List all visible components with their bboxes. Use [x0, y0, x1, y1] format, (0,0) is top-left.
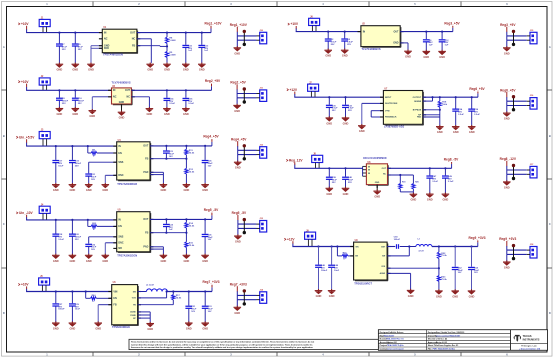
- resistor R20: [412, 175, 419, 192]
- wire J18 to ground: [506, 254, 508, 261]
- svg-text:GND: GND: [504, 185, 510, 189]
- svg-text:100k: 100k: [442, 104, 448, 106]
- wire C6 output rail: [400, 31, 453, 33]
- svg-text:25V: 25V: [332, 110, 336, 112]
- wire J10 to ground: [236, 40, 238, 47]
- svg-text:16V: 16V: [208, 165, 212, 167]
- ground C21: [85, 183, 93, 192]
- svg-text:Reg4_+5V: Reg4_+5V: [203, 135, 219, 139]
- wire U3 GND pin: [121, 104, 123, 111]
- net label Reg6_+5V: [469, 87, 485, 97]
- svg-text:+12V: +12V: [287, 237, 295, 241]
- wire U8 pin2: [388, 174, 414, 176]
- svg-text:TIDA-010057 Rev: E1: TIDA-010057 Rev: E1: [386, 338, 403, 341]
- ground R15: [183, 254, 191, 263]
- net label Reg3_+5V: [444, 21, 460, 31]
- net label Reg5_-5V output: [232, 211, 247, 224]
- connector J5: [39, 276, 50, 291]
- capacitor C14: [164, 90, 176, 108]
- svg-text:GND: GND: [183, 112, 189, 116]
- svg-text:OUTPUT: OUTPUT: [413, 97, 422, 99]
- wire J14 pins: [237, 295, 256, 299]
- wire U4 DNC pin to ground: [105, 175, 116, 183]
- svg-text:75.0k: 75.0k: [441, 279, 447, 281]
- net label Uin +5.5V input C3: [16, 135, 35, 146]
- capacitor C6: [423, 32, 433, 51]
- wire J11 to ground: [236, 98, 238, 105]
- svg-text:L3: L3: [418, 238, 420, 240]
- svg-text:1uF: 1uF: [169, 229, 174, 231]
- svg-text:GND: GND: [374, 195, 380, 199]
- ground C47: [426, 193, 434, 202]
- ground C27: [52, 321, 60, 330]
- wire C9 input rail: [292, 245, 353, 247]
- capacitor C27: [52, 292, 65, 323]
- capacitor C17: [52, 146, 64, 183]
- wire C5 output rail: [167, 290, 212, 292]
- svg-text:OUT: OUT: [143, 145, 149, 148]
- wire J14 to ground: [236, 300, 238, 307]
- ground U5 DNC: [102, 254, 110, 263]
- svg-text:Texas Instruments and/or its l: Texas Instruments and/or its licensors d…: [131, 340, 314, 343]
- ground U3 left: [89, 109, 97, 118]
- connector J18: [527, 244, 537, 258]
- net label Reg2_+5V: [205, 79, 221, 90]
- wire U1 GND+PAD pins to ground: [91, 46, 102, 63]
- capacitor C34: [452, 97, 464, 125]
- svg-text:16V: 16V: [474, 272, 478, 274]
- svg-text:3.3uF: 3.3uF: [432, 181, 438, 183]
- net label +12V input C7: [287, 88, 298, 97]
- wire C5 input rail: [26, 290, 112, 292]
- wire J10 pins: [237, 36, 256, 40]
- capacitor C15: [183, 90, 195, 108]
- connector J7: [308, 82, 319, 97]
- wire C3 input rail: [26, 145, 117, 147]
- svg-text:1.00M: 1.00M: [169, 55, 175, 57]
- ground C6: [423, 50, 431, 59]
- svg-text:25V: 25V: [62, 49, 66, 51]
- svg-text:FB: FB: [113, 304, 116, 307]
- capacitor C46: [315, 247, 328, 290]
- svg-text:Design 4.0.02: Design 4.0.02: [436, 341, 447, 344]
- svg-text:GND: GND: [119, 116, 125, 120]
- svg-text:25V: 25V: [332, 182, 336, 184]
- ground C19: [69, 183, 77, 192]
- svg-text:GND: GND: [443, 198, 449, 202]
- svg-text:50V: 50V: [91, 249, 95, 251]
- wire C6 input rail: [296, 31, 361, 33]
- svg-text:Reg7_+3V3: Reg7_+3V3: [202, 280, 219, 284]
- svg-text:GND: GND: [436, 294, 442, 298]
- ground U6 FB: [94, 321, 102, 330]
- svg-text:GND: GND: [343, 121, 349, 125]
- svg-text:FEEDBACK: FEEDBACK: [385, 116, 397, 119]
- svg-text:GND: GND: [89, 114, 95, 118]
- wire U6 FB right: [138, 304, 174, 306]
- ground U1 NC: [146, 63, 154, 72]
- svg-text:TEXAS: TEXAS: [523, 334, 532, 338]
- svg-text:OUT: OUT: [125, 89, 131, 92]
- svg-text:TLV70433DBVS: TLV70433DBVS: [362, 47, 381, 51]
- svg-text:GND: GND: [439, 55, 445, 59]
- ground J13: [234, 234, 242, 243]
- svg-text:Reg2_+5V: Reg2_+5V: [205, 79, 221, 83]
- ground C13: [198, 63, 206, 72]
- wire C1 input rail: [26, 31, 102, 33]
- capacitor C52: [452, 247, 464, 291]
- op-amp U2 TLV70433: [358, 24, 404, 51]
- svg-text:IN: IN: [363, 30, 366, 33]
- capacitor C2: [325, 32, 337, 50]
- svg-text:INPUT: INPUT: [385, 97, 392, 99]
- capacitor C21: [85, 173, 97, 183]
- ground C22: [85, 254, 93, 263]
- net label +10V input C5: [18, 283, 29, 292]
- svg-text:GND: GND: [164, 68, 170, 72]
- wire U7 np pad pins to ground: [423, 110, 440, 126]
- ground C40: [342, 187, 350, 196]
- svg-text:Firas Obeidat Test Date: 3/2: Firas Obeidat Test Date: 3/20/2019: [436, 331, 464, 334]
- wire J17 pins: [507, 170, 527, 174]
- svg-text:GND: GND: [504, 117, 510, 121]
- svg-text:16V: 16V: [208, 239, 212, 241]
- wire C7 output rail: [423, 96, 478, 98]
- svg-text:1.00M: 1.00M: [169, 40, 175, 42]
- disclaimer text box: [129, 339, 379, 349]
- ground J11: [233, 104, 241, 113]
- ground U9: [407, 289, 415, 298]
- ground C20: [69, 254, 77, 263]
- svg-text:+10V: +10V: [21, 80, 29, 84]
- connector J3: [39, 130, 50, 146]
- ground R19 R20: [410, 193, 418, 202]
- svg-text:SW: SW: [133, 291, 136, 293]
- capacitor C9: [72, 33, 84, 63]
- svg-text:VIN: VIN: [113, 290, 117, 293]
- svg-text:FB: FB: [145, 232, 148, 235]
- wire U8 GND pin: [376, 185, 378, 191]
- capacitor C33: [202, 292, 214, 323]
- connector J6: [309, 17, 320, 32]
- svg-text:TI Designs: Lam: TI Designs: Lam: [521, 345, 537, 347]
- shunt jumper J16: [512, 95, 515, 111]
- ground U7 right: [436, 125, 444, 134]
- svg-text:25V: 25V: [348, 182, 352, 184]
- svg-text:+10V: +10V: [21, 283, 29, 287]
- capacitor C10: [72, 90, 85, 107]
- net label Reg7_+3V3 output: [230, 283, 247, 296]
- svg-text:GND: GND: [183, 68, 189, 72]
- wire U7 shutdown to ground: [362, 103, 384, 124]
- wire U1 NC to ground: [137, 39, 151, 63]
- svg-text:D: D: [3, 311, 5, 315]
- svg-text:NC: NC: [132, 38, 136, 41]
- ground U8: [373, 190, 381, 199]
- svg-text:75.0k: 75.0k: [189, 171, 195, 173]
- ground C38: [326, 187, 334, 196]
- net label Reg1_+10V: [204, 21, 222, 32]
- svg-text:C: C: [549, 222, 551, 226]
- svg-text:3.3uF: 3.3uF: [474, 114, 480, 116]
- svg-text:GND: GND: [316, 294, 322, 298]
- capacitor C48: [328, 247, 340, 290]
- svg-text:GND: GND: [469, 130, 475, 134]
- svg-text:3.3uF: 3.3uF: [448, 181, 454, 183]
- svg-text:TPS7A3001DGN: TPS7A3001DGN: [117, 254, 137, 258]
- ground C4: [341, 49, 349, 58]
- net label Reg6_+5V output: [500, 88, 516, 101]
- svg-text:GND: GND: [53, 327, 59, 331]
- svg-text:FB: FB: [145, 158, 148, 161]
- svg-text:GND: GND: [53, 259, 59, 263]
- svg-text:Variant 001: Variant 001: [388, 341, 397, 344]
- svg-text:GND: GND: [186, 327, 192, 331]
- wire U4 FB rail: [150, 158, 187, 160]
- connector J4: [39, 203, 50, 220]
- op-amp U9 TPS62150: [350, 240, 390, 285]
- capacitor C47: [426, 168, 438, 193]
- shunt jumper J15: [512, 30, 515, 46]
- svg-text:GND: GND: [119, 101, 125, 104]
- wire U3 NC pin to ground: [92, 97, 111, 110]
- ground J14: [234, 306, 242, 315]
- svg-text:GND: GND: [95, 327, 101, 331]
- svg-text:02 of 06 Size: A4: 02 of 06 Size: A4: [433, 338, 447, 341]
- ground C15: [182, 107, 190, 116]
- net label +10V input C1: [18, 22, 29, 33]
- capacitor C8: [56, 90, 69, 107]
- resistor R14: [185, 219, 195, 232]
- svg-text:BYPASS: BYPASS: [413, 109, 422, 112]
- capacitor C54: [468, 247, 480, 291]
- wire U6 FB to ground: [98, 305, 112, 322]
- shunt jumper J14: [243, 289, 246, 305]
- wire U5 DNC pin to ground: [105, 243, 116, 254]
- resistor R13 enable C4: [88, 220, 117, 231]
- ground C14: [163, 107, 171, 116]
- svg-text:Reg3_+5V: Reg3_+5V: [500, 23, 516, 27]
- ground U4 PAD: [160, 183, 168, 192]
- net label Reg3_+5V output: [500, 23, 516, 36]
- svg-text:PAD: PAD: [417, 116, 422, 119]
- net label Reg9_+3V3: [468, 236, 485, 247]
- capacitor C19: [69, 146, 82, 183]
- svg-text:SNS: SNS: [118, 161, 123, 164]
- wire J12 pins: [238, 150, 257, 154]
- svg-text:Power Supplies Rev: E1: Power Supplies Rev: E1: [438, 345, 458, 347]
- svg-text:75.0k: 75.0k: [441, 255, 447, 257]
- net label Reg4_+5V: [203, 135, 219, 146]
- capacitor C31: [185, 292, 197, 323]
- connector J8: [312, 154, 323, 169]
- capacitor C32: [342, 97, 354, 117]
- op-amp U4 TPS7A8300: [113, 139, 153, 186]
- svg-text:1uF: 1uF: [429, 45, 434, 47]
- wire J13 pins: [238, 224, 257, 228]
- capacitor C50 bootstrap: [387, 236, 416, 248]
- svg-text:Reg8_-12V: Reg8_-12V: [500, 157, 517, 161]
- svg-text:GND: GND: [326, 192, 332, 196]
- resistor R22: [437, 247, 447, 269]
- net label Reg1_+10V output: [230, 23, 248, 36]
- svg-text:TPS7A8300RGR: TPS7A8300RGR: [117, 182, 137, 186]
- svg-text:Public Release: Public Release: [391, 332, 403, 334]
- svg-text:75.0k: 75.0k: [189, 245, 195, 247]
- ground U1 pad: [87, 63, 95, 72]
- svg-text:GND: GND: [202, 327, 208, 331]
- svg-text:GND: GND: [234, 51, 240, 55]
- svg-text:IN: IN: [118, 145, 121, 148]
- ground C32: [342, 116, 350, 125]
- svg-text:GND: GND: [202, 259, 208, 263]
- resistor R7 enable C3: [88, 146, 117, 158]
- shunt jumper J18: [512, 244, 515, 260]
- svg-text:GND: GND: [147, 112, 153, 116]
- svg-text:GND: GND: [70, 259, 76, 263]
- ground R12: [183, 183, 191, 192]
- ground U3 NC right: [146, 107, 154, 116]
- wire J15 to ground: [506, 40, 508, 47]
- ground C29: [69, 321, 77, 330]
- svg-text:GND: GND: [147, 327, 153, 331]
- resistor R8: [165, 33, 175, 47]
- svg-text:3.3uF: 3.3uF: [188, 103, 194, 105]
- svg-text:100nF: 100nF: [321, 270, 328, 272]
- svg-text:25V: 25V: [62, 103, 66, 105]
- svg-text:INSTRUMENTS: INSTRUMENTS: [523, 339, 540, 341]
- net label Reg7_+3V3: [202, 280, 219, 291]
- wire U1 FB: [137, 45, 168, 47]
- capacitor C12: [439, 32, 450, 51]
- svg-text:GND: GND: [164, 112, 170, 116]
- svg-text:GND: GND: [408, 294, 414, 298]
- connector J16: [527, 95, 537, 109]
- shunt jumper J12: [243, 144, 246, 160]
- svg-text:GND: GND: [57, 112, 63, 116]
- wire U3 NC right to ground: [131, 97, 149, 108]
- svg-text:VTW: VTW: [385, 110, 390, 112]
- svg-text:GND: GND: [53, 188, 59, 192]
- svg-text:AGND: AGND: [130, 311, 136, 314]
- svg-text:25V: 25V: [331, 44, 335, 46]
- svg-text:NC: NC: [127, 96, 131, 99]
- ground J10: [234, 46, 242, 55]
- svg-text:Uin_+5.5V: Uin_+5.5V: [19, 135, 35, 139]
- wire R19 R20 join to ground: [400, 192, 413, 194]
- svg-text:16V: 16V: [169, 156, 173, 158]
- net label Uin -10V input C4: [16, 211, 33, 220]
- wire J16 to ground: [506, 106, 508, 113]
- svg-text:GND: GND: [423, 55, 429, 59]
- svg-text:25V: 25V: [75, 239, 79, 241]
- svg-text:www.ti.com/tool/TIDA-010057: www.ti.com/tool/TIDA-010057: [436, 334, 460, 337]
- ground C12: [438, 50, 446, 59]
- svg-text:EN: EN: [118, 225, 122, 228]
- ground U5 PAD: [160, 254, 168, 263]
- wire J18 pins: [507, 250, 527, 254]
- svg-text:16V: 16V: [458, 272, 462, 274]
- svg-text:25V: 25V: [347, 44, 351, 46]
- svg-text:TPS62160DGK: TPS62160DGK: [112, 325, 130, 329]
- shunt jumper J11: [243, 87, 246, 103]
- svg-text:Reg5_-5V: Reg5_-5V: [204, 208, 219, 212]
- capacitor C20: [69, 220, 82, 254]
- shunt jumper J13: [243, 218, 246, 234]
- wire U5 PAD to ground: [150, 247, 163, 254]
- resistor R19: [399, 175, 406, 192]
- svg-text:NR: NR: [118, 247, 122, 250]
- svg-text:PAD: PAD: [143, 171, 148, 174]
- svg-text:+10V: +10V: [21, 22, 29, 26]
- net label Reg9_+3V3 output: [499, 237, 516, 250]
- svg-text:EN: EN: [118, 152, 122, 155]
- wire C2 input rail: [26, 89, 111, 91]
- resistor R18: [438, 97, 448, 110]
- svg-text:50V: 50V: [91, 179, 95, 181]
- op-amp U7 LP38798: [380, 89, 426, 129]
- svg-text:GND: GND: [184, 188, 190, 192]
- svg-text:FB: FB: [132, 45, 135, 48]
- svg-text:25V: 25V: [75, 165, 79, 167]
- svg-text:4.7uH: 4.7uH: [419, 250, 425, 253]
- wire J17 to ground: [506, 174, 508, 181]
- svg-text:Reg5_-5V: Reg5_-5V: [232, 211, 247, 215]
- svg-text:1uF: 1uF: [204, 50, 209, 52]
- svg-text:GND: GND: [375, 182, 380, 184]
- svg-text:10uF: 10uF: [75, 309, 81, 311]
- connector J14: [257, 288, 267, 303]
- svg-text:PWR_TIDA-010057.SchDoc: PWR_TIDA-010057.SchDoc: [433, 348, 456, 351]
- svg-text:PAD: PAD: [104, 47, 109, 50]
- svg-text:GND: GND: [234, 109, 240, 113]
- ground C18: [52, 254, 60, 263]
- svg-text:GND: GND: [235, 166, 241, 170]
- svg-text:Reg8_-5V: Reg8_-5V: [444, 158, 459, 162]
- resistor R9: [165, 46, 175, 63]
- svg-text:GND: GND: [199, 68, 205, 72]
- ground C33: [201, 321, 209, 330]
- ground R9: [163, 63, 171, 72]
- net label +12V input C9: [284, 237, 295, 246]
- title block text: [380, 331, 465, 351]
- svg-text:AGND: AGND: [380, 272, 386, 275]
- svg-text:1uF: 1uF: [445, 45, 450, 47]
- ground R23: [435, 289, 443, 298]
- svg-text:NC: NC: [104, 38, 108, 41]
- wire U9 VOS: [387, 267, 440, 269]
- svg-text:25V: 25V: [78, 49, 82, 51]
- wire C7 input rail: [294, 96, 383, 98]
- op-amp U3 TLV70450: [108, 80, 135, 107]
- ground C36: [468, 125, 476, 134]
- svg-text:CDCLVC1310PWMOD: CDCLVC1310PWMOD: [363, 158, 387, 160]
- ground C54: [468, 289, 476, 298]
- connector J13: [257, 218, 267, 232]
- svg-text:GND: GND: [504, 266, 510, 270]
- svg-text:SHUTDOWN: SHUTDOWN: [385, 103, 398, 105]
- ground C17: [52, 183, 60, 192]
- capacitor C30: [326, 97, 338, 117]
- svg-text:PGND: PGND: [130, 315, 136, 317]
- svg-text:DNC: DNC: [118, 174, 123, 177]
- ground C49: [442, 193, 450, 202]
- svg-text:DNC: DNC: [118, 242, 123, 245]
- svg-text:NC: NC: [383, 174, 387, 176]
- svg-text:GND: GND: [504, 51, 510, 55]
- svg-text:Reg9_+3V3: Reg9_+3V3: [468, 236, 485, 240]
- ground C34: [452, 125, 460, 134]
